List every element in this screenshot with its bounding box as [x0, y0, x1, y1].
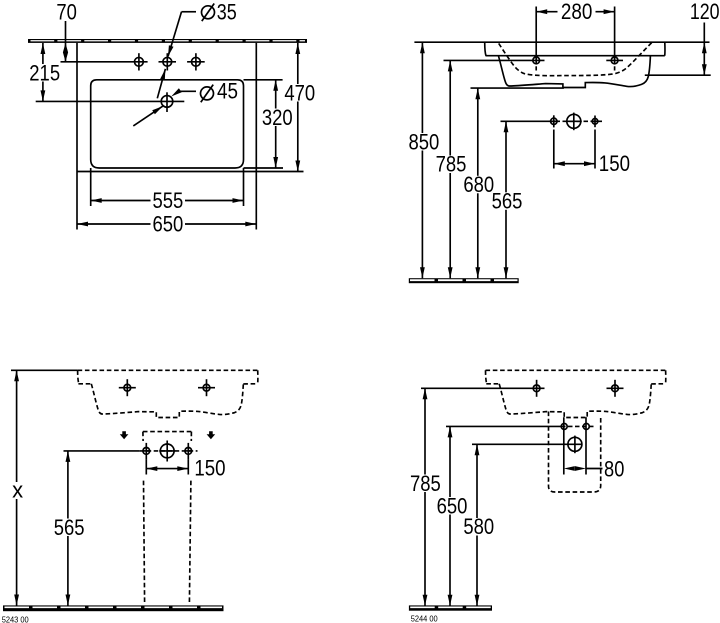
drain outlet circle [160, 444, 174, 458]
arrowheads top-right [420, 9, 707, 278]
dim 565 arrows [66, 451, 71, 462]
basin body outline [498, 56, 650, 88]
dashed basin silhouette [78, 370, 258, 417]
basin outer rect left edge [76, 43, 78, 172]
fixing centre line solid part / 650 extension [446, 425, 561, 427]
svg-text:215: 215 [29, 60, 60, 85]
dim 280 extension line left / tap arm [535, 7, 537, 64]
dim 320 arrows [273, 80, 278, 91]
dim 120 lower extension line [645, 74, 711, 76]
dim 80 line to text [586, 468, 603, 470]
floor band [409, 605, 492, 610]
dim 150 extension lines [145, 459, 147, 474]
drain hole vertical arm [166, 92, 168, 112]
inner bowl rounded rect [91, 80, 244, 168]
drain centre line dashed part [140, 450, 198, 452]
dim 150 arrows [554, 161, 565, 166]
fixing box solid side lines [563, 417, 565, 474]
tap hole right circle [192, 57, 201, 66]
inner bowl top edge extension line to 320 dim [244, 79, 283, 81]
leader line for diam35 [182, 11, 197, 13]
dim x arrows [14, 370, 19, 381]
hidden bowl contour (dashed) [499, 43, 652, 76]
svg-text:35: 35 [217, 0, 237, 25]
drain hole horizontal arm / 215 extension line [36, 100, 185, 102]
dimension texts bottom-right [410, 456, 624, 539]
dim 70 extension line [65, 21, 67, 62]
dim 215 arrows [41, 43, 46, 54]
dim 850 line [421, 42, 423, 278]
svg-text:x: x [12, 478, 23, 503]
basin outer rect right edge [255, 43, 257, 172]
dim 680 arrows [475, 88, 480, 99]
dim 850 arrows [420, 42, 425, 53]
dim 150 extension lines [553, 130, 555, 169]
dim 70 diamond arrow [63, 43, 68, 62]
basin rim right edge [664, 42, 666, 56]
dim 555 extension lines [90, 168, 92, 206]
dim 150 line [554, 163, 595, 165]
drain centre line solid part / 565 extension [64, 450, 140, 452]
fixing direction bold arrow left [120, 431, 129, 439]
drain centre line / 580 extension [472, 443, 582, 445]
tap hole middle circle [163, 57, 172, 66]
dim 785 line [424, 388, 426, 605]
dim 650 line [77, 223, 256, 225]
arrowheads bottom-right [423, 388, 586, 605]
dim 555 line [91, 200, 244, 202]
dim x top extension line [11, 369, 78, 371]
tap hole right cross [203, 384, 210, 391]
dim 565 arrows [504, 121, 509, 132]
text backgrounds bottom-left [9, 482, 87, 536]
dim 120 line [703, 23, 705, 43]
fixing cross left [561, 423, 567, 429]
dim 580 arrows [475, 444, 480, 455]
wall line [414, 41, 709, 43]
tap hole left cross [533, 385, 540, 392]
svg-text:555: 555 [153, 188, 184, 213]
leader line for diam45 [180, 90, 197, 92]
arrowheads top-left [41, 43, 301, 226]
svg-text:80: 80 [604, 456, 624, 481]
dim 650 line [449, 426, 451, 605]
tap hole centre line [61, 61, 148, 63]
tap hole right horizontal arm [606, 59, 623, 61]
wall band white dashes [31, 40, 306, 42]
drain fixing cross right [592, 119, 598, 125]
dim 680 line [477, 88, 479, 278]
siphon cover dashed outline [549, 412, 601, 493]
diam35 leader arrows [168, 45, 174, 56]
tap hole left circle [135, 57, 144, 66]
drain centre line solid part [501, 120, 549, 122]
svg-text:150: 150 [599, 151, 630, 176]
dimension texts top-right [409, 0, 720, 214]
inner bowl bottom edge extension line to 320 dim [244, 167, 284, 169]
text backgrounds top-right [407, 133, 525, 210]
drain outlet circle [568, 437, 582, 451]
svg-text:850: 850 [409, 129, 440, 154]
dim 470 line [297, 43, 299, 172]
drain fixing cross left [551, 118, 557, 124]
dim x line [16, 370, 18, 605]
dim 785 arrows [423, 388, 428, 399]
svg-text:45: 45 [217, 79, 238, 104]
dashed basin silhouette [486, 370, 666, 417]
dim 580 line [476, 444, 478, 605]
dim 555 arrows [91, 198, 102, 203]
svg-text:5243 00: 5243 00 [2, 616, 30, 623]
floor band [3, 605, 224, 611]
fixing direction bold arrow right [207, 431, 216, 439]
wall section band [28, 39, 307, 43]
svg-text:565: 565 [492, 189, 523, 214]
svg-text:470: 470 [284, 80, 315, 105]
drain fixing cross left [143, 448, 150, 455]
dim 565 line [505, 121, 507, 278]
dim 120 arrows [702, 42, 707, 53]
dim 650 arrows [77, 222, 88, 227]
dim 785 line [449, 60, 451, 278]
drain outlet circle [567, 114, 581, 128]
svg-text:650: 650 [153, 211, 184, 236]
svg-text:785: 785 [410, 471, 441, 496]
drain centre line dashed part [549, 120, 605, 122]
svg-text:320: 320 [262, 105, 293, 130]
drain hole circle (diam 45) [161, 96, 173, 108]
floor band [409, 278, 519, 283]
pedestal / fixing box dashed outline [143, 432, 192, 604]
tap hole left vertical arm [138, 53, 140, 70]
dim 280 extension line right / tap arm [614, 7, 616, 64]
svg-text:280: 280 [561, 0, 593, 24]
svg-text:580: 580 [463, 514, 494, 539]
arrowheads + bold arrows bottom-left [14, 370, 215, 605]
tap hole right cross [612, 385, 619, 392]
diam45 leader arrows [171, 88, 182, 96]
dimension texts bottom-left [12, 456, 225, 540]
dim 650 extension lines [76, 172, 78, 230]
svg-text:150: 150 [194, 456, 225, 481]
dim 280 arrows [536, 9, 547, 14]
tap hole right cross [611, 57, 618, 64]
dim 785 extension line through left tap [444, 59, 545, 61]
fixing cross right [583, 423, 589, 429]
tap hole left cross [533, 57, 540, 64]
dim 150 arrows [146, 466, 157, 471]
basin rim left edge [485, 42, 486, 56]
tap hole middle arms [159, 61, 177, 63]
tap hole left cross [124, 384, 131, 391]
basin outer bottom line extended to 470 dim [77, 171, 304, 173]
svg-text:680: 680 [463, 172, 494, 197]
diameter symbols [201, 4, 215, 103]
svg-text:5244 00: 5244 00 [411, 615, 439, 623]
text backgrounds bottom-right [408, 475, 496, 536]
dim 785 arrows [448, 60, 453, 71]
dim 280 line [536, 11, 557, 13]
dim 785 extension line [421, 387, 545, 389]
svg-text:565: 565 [54, 515, 85, 540]
basin rim underside [486, 55, 665, 57]
dim 565 line [67, 451, 69, 606]
dim 215 line [42, 43, 44, 101]
dim 150 line [146, 468, 188, 470]
svg-text:70: 70 [56, 0, 77, 25]
svg-text:785: 785 [436, 152, 467, 177]
dim 80 bowtie arrows [564, 466, 575, 471]
svg-text:120: 120 [690, 0, 720, 24]
drain fixing cross right [185, 448, 192, 455]
dim 320 line [275, 80, 277, 168]
dim 650 arrows [448, 426, 453, 437]
fixing centre line dashed part [561, 425, 596, 427]
dim 470 arrows [295, 43, 300, 54]
dim 680 extension line [471, 87, 564, 89]
dimension texts top-left [29, 0, 315, 236]
tap hole right arms [187, 61, 205, 63]
text backgrounds top-left [28, 64, 317, 233]
